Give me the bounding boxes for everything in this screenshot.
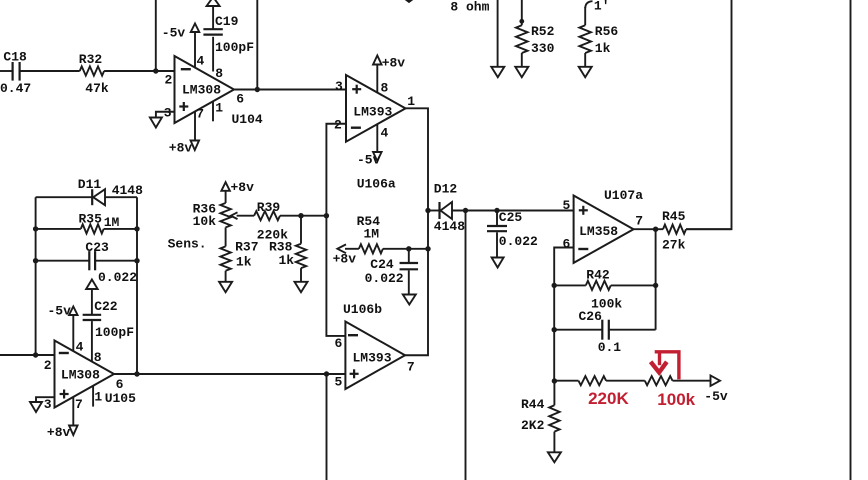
U104 pin 4 wire to -5v <box>194 32 196 68</box>
wire 100k resistor to -5v arrow <box>673 380 712 382</box>
svg-text:1: 1 <box>215 101 223 116</box>
svg-text:4: 4 <box>381 126 389 141</box>
svg-text:R56: R56 <box>595 24 619 39</box>
U105 pin 7 wire to +8v <box>72 397 74 425</box>
svg-text:+8v: +8v <box>47 425 71 440</box>
R37 bottom lead <box>225 271 227 282</box>
svg-text:2: 2 <box>334 117 342 132</box>
junction node C26 left <box>552 327 557 332</box>
resistor R52 <box>516 25 528 53</box>
U106a pin 8 wire to +8v <box>376 65 378 93</box>
junction node on U104 output <box>255 87 260 92</box>
svg-text:1M: 1M <box>364 226 380 241</box>
wire R42 row left <box>554 284 586 286</box>
resistor R39 <box>254 211 280 220</box>
wire R32 to U104 pin 2 <box>104 70 174 72</box>
svg-text:100pF: 100pF <box>95 325 134 340</box>
svg-text:7: 7 <box>635 214 643 229</box>
svg-text:3: 3 <box>164 105 172 120</box>
wire R45 to right rail <box>686 228 732 230</box>
capacitor C19 top power arrow <box>207 0 220 6</box>
op-amp U106a LM393 <box>346 75 406 142</box>
wire vertical from top edge to pin-2 node <box>155 0 157 71</box>
wire left edge to U105 pin 2 <box>0 354 55 356</box>
svg-text:LM308: LM308 <box>182 83 221 98</box>
junction node U105 output at right rail <box>134 371 139 376</box>
svg-text:330: 330 <box>531 41 555 56</box>
U104 pin 1 stub <box>212 102 214 122</box>
junction nodes R35 row <box>33 226 38 231</box>
C25 top lead <box>496 211 498 227</box>
wire down from pin-5 node to bottom edge <box>326 374 328 480</box>
junction node left rail at pin 2 <box>33 352 38 357</box>
svg-text:U104: U104 <box>232 112 263 127</box>
resistor R32 <box>80 66 104 75</box>
svg-text:U106a: U106a <box>357 177 396 192</box>
svg-text:-5v: -5v <box>48 303 72 318</box>
svg-text:R52: R52 <box>531 24 555 39</box>
svg-text:4: 4 <box>76 339 84 354</box>
wire arrow to R54 <box>345 248 359 250</box>
svg-text:C23: C23 <box>85 240 109 255</box>
svg-text:1: 1 <box>94 389 102 404</box>
vertical wire from top edge down to U104 output <box>256 0 258 90</box>
svg-text:3: 3 <box>335 79 343 94</box>
svg-text:2: 2 <box>44 358 52 373</box>
capacitor C19 <box>203 28 222 30</box>
resistor 220K (red-labelled) <box>579 376 607 385</box>
svg-text:+8v: +8v <box>382 56 406 71</box>
svg-text:+8v: +8v <box>169 140 193 155</box>
svg-text:7: 7 <box>407 360 415 375</box>
capacitor C22 <box>83 314 102 316</box>
+8v power arrow below U104 pin 7 <box>191 141 200 151</box>
diode D12 <box>438 202 440 219</box>
svg-text:1: 1 <box>407 94 415 109</box>
op-amp U104 LM308 <box>175 56 235 123</box>
wire R39 to rail with R38 tap <box>280 215 326 217</box>
svg-text:U106b: U106b <box>343 302 382 317</box>
svg-text:C26: C26 <box>579 309 603 324</box>
wire down from D12 cathode to bottom edge <box>465 211 467 480</box>
C24 bottom lead <box>408 270 410 294</box>
R36 wiper arrow <box>231 212 238 219</box>
svg-text:R39: R39 <box>257 200 281 215</box>
U104 plus input symbol <box>179 105 188 107</box>
U104 pin 7 wire to +8v <box>194 111 196 140</box>
svg-text:0.022: 0.022 <box>365 271 404 286</box>
wire R36 to R37 <box>225 227 227 246</box>
svg-text:C22: C22 <box>94 299 118 314</box>
+8v power arrow above R36 <box>221 182 230 191</box>
resistor R38 <box>296 244 306 268</box>
svg-text:7: 7 <box>75 397 83 412</box>
wire C26 row left <box>554 329 602 331</box>
svg-text:LM308: LM308 <box>61 367 100 382</box>
resistor R37 <box>220 246 230 270</box>
C25 bottom lead <box>496 232 498 257</box>
-5v right arrow at bottom <box>711 375 721 386</box>
wire C23 row right <box>95 260 137 262</box>
junction node R44 top <box>552 378 557 383</box>
-5v power arrow at U105 pin 4 <box>69 307 78 316</box>
svg-text:5: 5 <box>335 375 343 390</box>
svg-text:2: 2 <box>165 73 173 88</box>
ground arrow under C25 <box>492 258 504 268</box>
capacitor C24 <box>400 262 419 264</box>
-5v power arrow at U106a pin 4 <box>373 152 382 161</box>
svg-text:R35: R35 <box>79 212 103 227</box>
wire rail to D12 <box>428 210 440 212</box>
svg-text:U105: U105 <box>105 391 136 406</box>
svg-text:R32: R32 <box>79 52 103 67</box>
svg-text:8: 8 <box>381 81 389 96</box>
+8v power arrow below U105 pin 7 <box>69 426 78 436</box>
wire R35 row right <box>104 228 137 230</box>
resistor R56 <box>579 25 591 53</box>
capacitor C23 <box>88 251 90 270</box>
junction node R54 at rail <box>425 246 430 251</box>
ground arrow under 8-ohm line <box>491 67 504 77</box>
resistor R54 <box>359 244 383 253</box>
svg-text:3: 3 <box>44 397 52 412</box>
svg-text:27k: 27k <box>662 238 686 253</box>
R56 bottom lead <box>584 53 586 67</box>
resistor R44 <box>549 405 559 431</box>
ground at U105 pin 3 <box>30 402 42 412</box>
svg-text:7: 7 <box>196 107 204 122</box>
junction node C25 tap <box>494 208 499 213</box>
svg-text:6: 6 <box>116 377 124 392</box>
capacitor C25 <box>487 225 507 227</box>
svg-text:LM393: LM393 <box>353 104 392 119</box>
U104 minus input symbol <box>181 68 191 70</box>
op-amp U106b LM393 <box>345 322 405 390</box>
junction node stub on R52 lead <box>519 19 524 24</box>
svg-text:100k: 100k <box>657 390 695 409</box>
resistor R45 <box>663 225 686 234</box>
svg-text:4148: 4148 <box>434 219 465 234</box>
wire C22 to U105 pin 8 <box>91 321 93 362</box>
potentiometer R36 <box>220 203 230 227</box>
svg-text:C19: C19 <box>215 14 239 29</box>
U104 pin 3 ground wire <box>156 112 175 118</box>
svg-text:+8v: +8v <box>231 180 255 195</box>
wire D11 top left segment <box>36 196 93 198</box>
junction node U106b pin 5 <box>324 371 329 376</box>
svg-text:6: 6 <box>335 336 343 351</box>
svg-text:Sens.: Sens. <box>168 236 207 251</box>
svg-text:C18: C18 <box>3 50 27 65</box>
junction node R38 top <box>298 213 303 218</box>
svg-text:1M: 1M <box>104 215 120 230</box>
ground arrow under R37 <box>219 282 232 292</box>
U105 pin 1 stub <box>92 386 94 407</box>
junction node at U104 pin 2 <box>153 68 158 73</box>
wire C19 to U104 pin 8 <box>212 37 214 72</box>
svg-text:1k: 1k <box>236 254 252 269</box>
svg-text:0.47: 0.47 <box>0 81 31 96</box>
svg-text:-5v: -5v <box>704 389 728 404</box>
U105 pin 4 wire to -5v <box>72 315 74 352</box>
svg-text:D12: D12 <box>434 182 458 197</box>
R52 bottom lead <box>521 53 523 67</box>
svg-text:4: 4 <box>197 54 205 69</box>
svg-text:0.1: 0.1 <box>598 340 622 355</box>
arrow above C22 <box>86 280 98 290</box>
svg-text:0.022: 0.022 <box>499 234 538 249</box>
wire R54 to rail <box>383 248 428 250</box>
wire wiper to R39 <box>237 215 255 217</box>
svg-text:R42: R42 <box>586 268 610 283</box>
svg-text:1k: 1k <box>279 253 295 268</box>
U105 minus input symbol <box>59 352 69 354</box>
svg-text:8: 8 <box>215 66 223 81</box>
wire rail from top edge to R45 output net <box>686 0 732 229</box>
+8v left arrow at R54 <box>337 244 346 253</box>
diode D11 <box>91 189 93 205</box>
svg-text:R44: R44 <box>521 397 545 412</box>
wire R42 row right <box>611 284 656 286</box>
wire R35 row left <box>36 228 81 230</box>
wire bottom row left <box>554 380 578 382</box>
svg-text:6: 6 <box>236 92 244 107</box>
-5v power arrow at U104 pin 4 <box>191 24 200 33</box>
junction nodes R42 row <box>552 283 557 288</box>
ground arrow under R38 <box>295 282 308 292</box>
wire 8-ohm line down <box>497 0 499 67</box>
svg-text:2K2: 2K2 <box>521 418 545 433</box>
ground arrow under R52 <box>515 67 528 77</box>
ground arrow under R56 <box>579 67 592 77</box>
ground arrow under R44 <box>548 452 561 462</box>
U106a plus input symbol <box>352 88 361 90</box>
wire C26 row right <box>609 329 656 331</box>
red annotation pot arrow <box>655 352 679 380</box>
wire C22 top lead <box>91 289 93 315</box>
resistor R35 <box>81 224 104 233</box>
R44 bottom lead <box>553 432 555 453</box>
wire long right rail <box>850 0 852 480</box>
svg-text:1k: 1k <box>595 41 611 56</box>
C19 wire from arrow to plate <box>212 6 214 30</box>
resistor R42 <box>586 281 611 290</box>
svg-text:10k: 10k <box>193 214 217 229</box>
svg-text:220K: 220K <box>588 389 629 408</box>
ground arrow under C24 <box>403 295 416 305</box>
svg-text:5: 5 <box>563 198 571 213</box>
+8v power arrow at U106a pin 8 <box>373 56 382 65</box>
junction node D12 cathode <box>463 208 468 213</box>
junction node U107a output <box>653 227 658 232</box>
svg-text:8 ohm: 8 ohm <box>450 0 489 14</box>
svg-text:1': 1' <box>594 0 610 13</box>
cut arrowhead stub at top edge <box>406 0 413 3</box>
svg-text:C25: C25 <box>499 210 523 225</box>
U106a output wire down to D12 node <box>405 108 428 355</box>
resistor R56 top lead <box>584 7 586 25</box>
wire C23 row left <box>36 260 90 262</box>
U106a minus input symbol <box>351 126 361 128</box>
U107a pin 6 feedback wire <box>554 248 573 382</box>
wire between bottom resistors <box>606 380 645 382</box>
svg-text:LM393: LM393 <box>353 350 392 365</box>
wire input from left edge to R32 (C18 net) <box>0 70 13 72</box>
wire right rail of D11 loop <box>136 197 138 374</box>
wire left rail of D11 loop <box>35 197 37 355</box>
U105 plus input symbol <box>60 393 69 395</box>
ground at U104 pin 3 <box>150 118 162 128</box>
svg-text:R37: R37 <box>235 239 258 254</box>
junction nodes C23 row <box>33 258 38 263</box>
svg-text:+8v: +8v <box>333 252 357 267</box>
svg-text:6: 6 <box>563 237 571 252</box>
U105 pin 3 ground wire <box>36 397 55 402</box>
op-amp U107a LM358 <box>574 196 634 263</box>
junction node R39 at U106a rail <box>324 213 329 218</box>
wire D12 to C25 to U107a pin 5 <box>452 210 574 212</box>
R38 top lead <box>300 216 302 244</box>
svg-text:-5v: -5v <box>357 152 381 167</box>
U107a output wire <box>634 228 664 230</box>
U107a plus input symbol <box>579 209 588 211</box>
svg-text:0.022: 0.022 <box>98 270 137 285</box>
U106b plus input symbol <box>350 373 359 375</box>
winding stub hook above R56 <box>585 1 592 8</box>
U107a minus input symbol <box>578 248 588 250</box>
U105 output wire to U106b pin 5 <box>114 373 345 375</box>
junction node D12 anode <box>425 208 430 213</box>
wire feedback rail down from output <box>655 229 657 330</box>
resistor 100k (red-labelled) <box>645 376 673 385</box>
U106a pin 2 wire from rail <box>326 124 346 336</box>
svg-text:8: 8 <box>94 350 102 365</box>
wire D11 to right rail <box>105 196 137 198</box>
R36 top lead <box>225 191 227 203</box>
junction node C24 tap <box>406 246 411 251</box>
svg-text:LM358: LM358 <box>579 224 618 239</box>
resistor R52 top lead <box>521 0 523 25</box>
C24 top lead <box>408 249 410 263</box>
capacitor C26 <box>601 320 603 340</box>
svg-text:R45: R45 <box>662 209 686 224</box>
svg-text:100pF: 100pF <box>215 40 254 55</box>
svg-text:47k: 47k <box>85 81 109 96</box>
svg-text:-5v: -5v <box>162 25 186 40</box>
U106b minus input symbol <box>348 334 358 336</box>
U106a pin 4 wire to -5v <box>376 124 378 152</box>
U104 output wire to U106a pin 3 <box>234 89 346 91</box>
op-amp U105 LM308 <box>55 341 115 408</box>
R44 top lead <box>553 381 555 405</box>
svg-text:4148: 4148 <box>112 183 143 198</box>
svg-text:U107a: U107a <box>604 188 643 203</box>
svg-text:D11: D11 <box>78 177 102 192</box>
capacitor C18 <box>12 62 14 81</box>
R38 bottom lead <box>300 268 302 282</box>
